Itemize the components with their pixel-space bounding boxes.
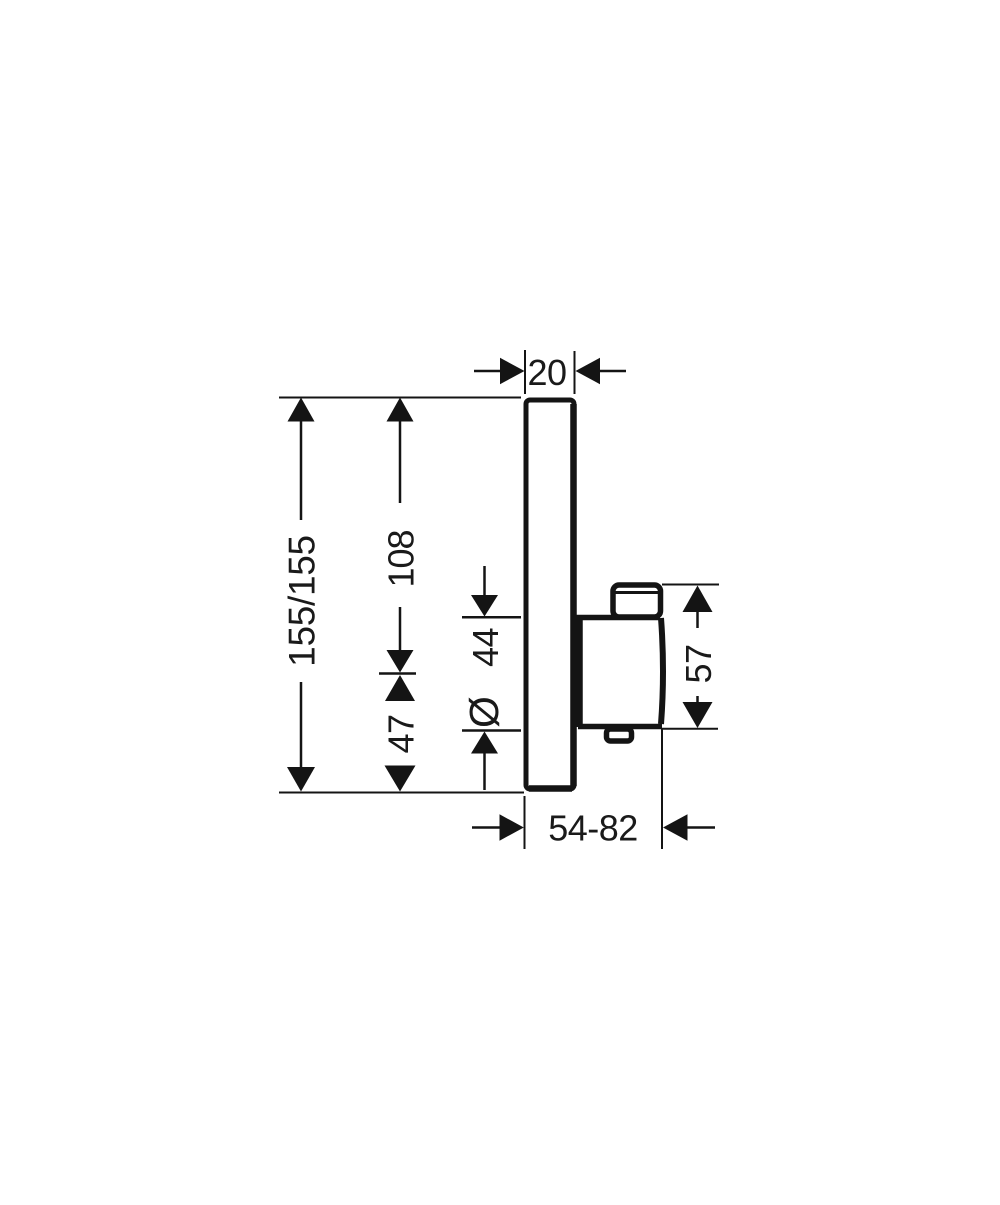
svg-text:155/155: 155/155 — [282, 535, 323, 667]
dim 57: top ext line — [662, 584, 719, 586]
dim 57: bottom arrow (down) — [683, 696, 713, 728]
dim 57: top arrow (up) — [683, 586, 713, 629]
dim 20: right arrow — [576, 358, 627, 384]
dim 47: top arrow (pointing up) — [385, 675, 415, 701]
dim 155/155: bottom arrow — [287, 682, 315, 792]
dim O44: top stub + down arrow — [471, 566, 498, 617]
svg-text:57: 57 — [678, 644, 719, 683]
handle body right edge (slight bulge) — [661, 618, 663, 724]
plate body (side profile rectangle) — [526, 400, 574, 789]
bottom extension line (155 lower datum) — [279, 792, 524, 794]
dim 20: left ext line — [524, 350, 526, 394]
handle bottom tab — [607, 729, 632, 741]
dim 54-82: left arrow — [472, 814, 524, 840]
handle body top edge — [576, 615, 660, 621]
handle body left edge — [576, 617, 583, 727]
dim 54-82: right arrow — [663, 814, 715, 840]
dim 57: bottom ext line — [662, 728, 718, 730]
dim O44: lower tick — [462, 729, 521, 732]
handle cap (small top part) — [612, 585, 661, 617]
dim 108: bottom arrow — [387, 607, 414, 673]
svg-text:108: 108 — [381, 530, 422, 587]
dim 20: right ext line — [574, 351, 576, 394]
svg-text:54-82: 54-82 — [548, 808, 638, 849]
dim O44: up arrow + bottom stub — [471, 732, 498, 791]
dim 108/47 shared tick — [379, 672, 416, 675]
dim 20: left arrow — [474, 358, 525, 384]
dim 47: bottom arrow (pointing down) — [385, 766, 416, 792]
dim 54-82: right ext line — [661, 729, 663, 849]
dim O44: upper tick — [462, 616, 521, 619]
dim 108: top arrow — [387, 398, 414, 504]
svg-text:47: 47 — [381, 714, 422, 753]
svg-text:Ø 44: Ø 44 — [461, 628, 507, 728]
dim 54-82: left ext line — [524, 796, 526, 849]
top extension line (155 upper datum) — [279, 397, 521, 399]
dim 155/155: top arrow — [288, 398, 315, 521]
svg-text:20: 20 — [527, 352, 566, 393]
handle body bottom edge — [578, 724, 662, 730]
